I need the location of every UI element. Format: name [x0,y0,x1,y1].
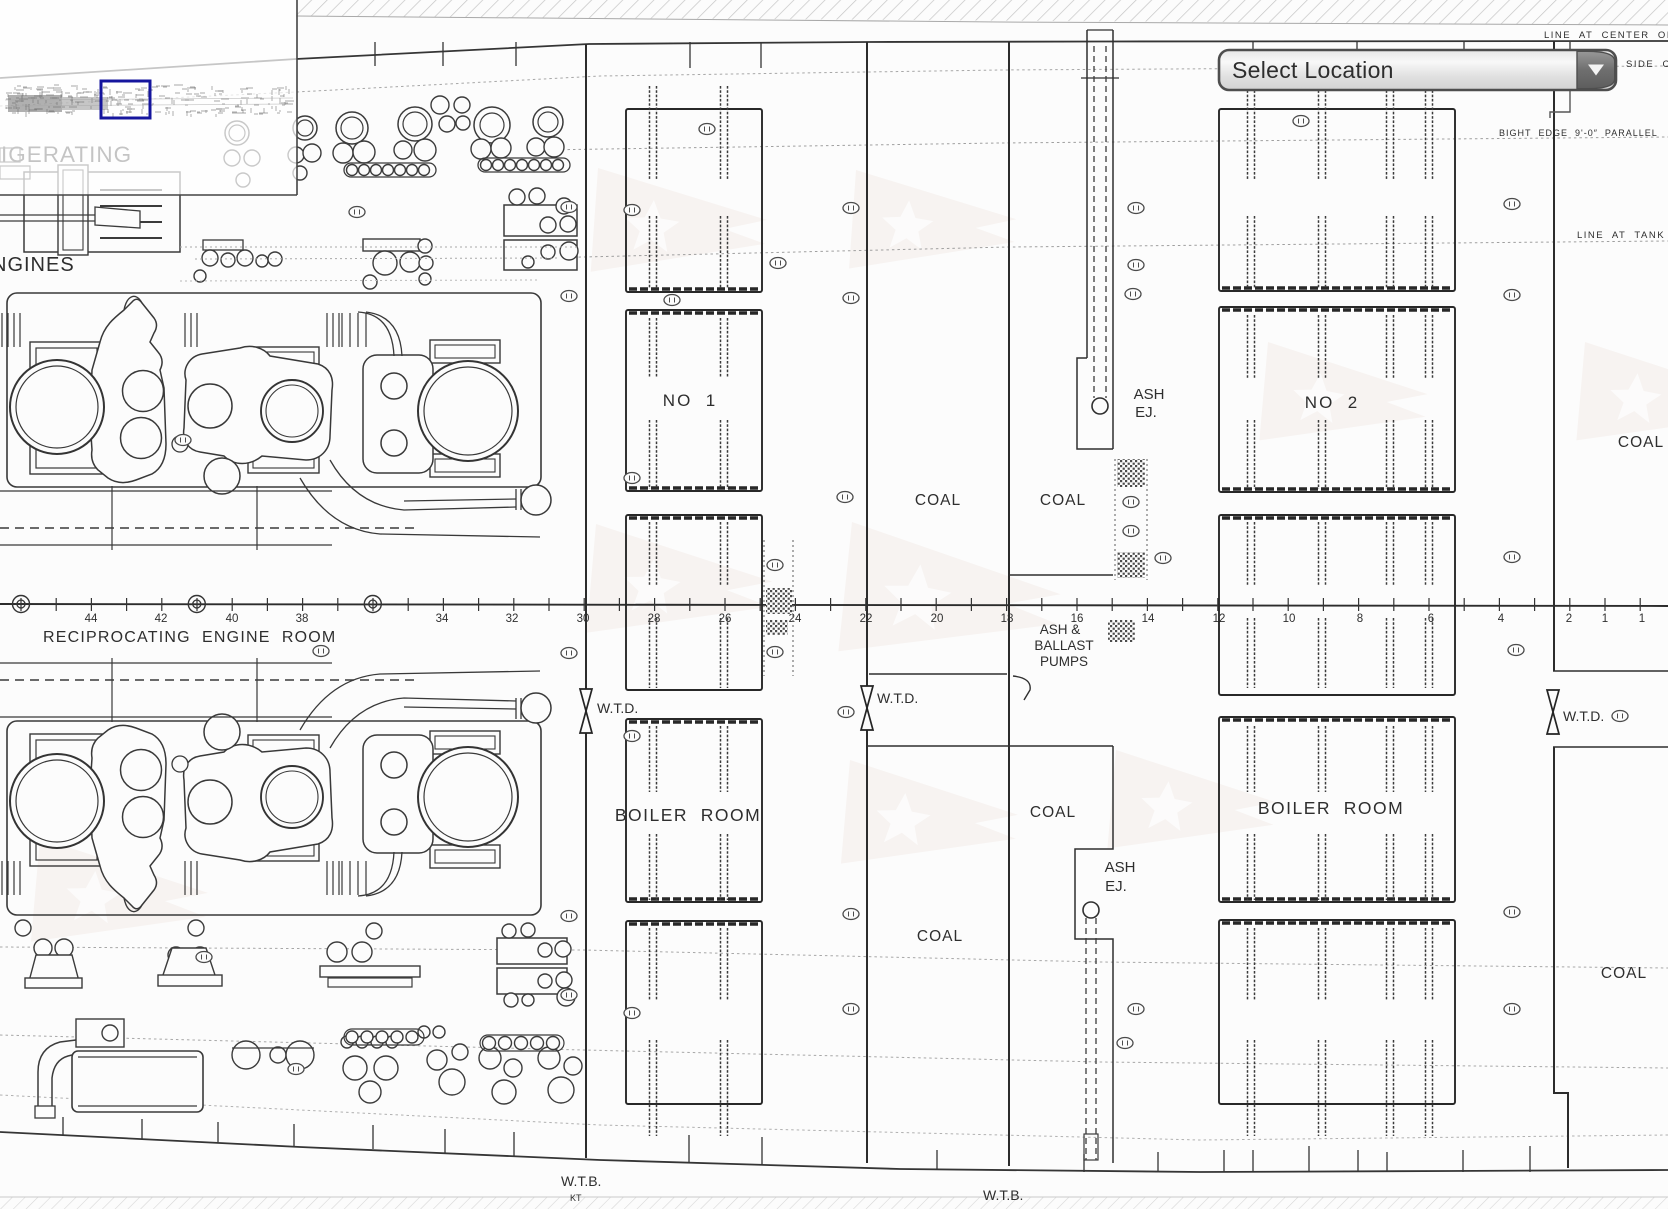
line at tank dotted [540,241,1668,258]
auxiliary machinery top row [225,121,249,145]
escape trunk port [763,540,765,676]
hull top edge [0,41,1668,78]
boiler bank B7 [1219,307,1455,492]
reciprocating engine (stbd) [0,658,551,915]
reciprocating engine (port) [0,293,551,550]
W.T.D. valve frame 22 [861,686,873,730]
lower bunker top line [867,745,1113,747]
watertight bulkhead frame 18 [1008,42,1010,1166]
rivet/penetration symbols [349,207,365,218]
boiler bank B5 [626,921,762,1136]
frame number ruler [0,604,1668,606]
frame ticks on hull top [374,42,376,66]
boiler bank B9 [1219,717,1455,902]
hatched margin above hull top edge [296,0,1668,25]
W.T.D. valve frame 2 [1547,690,1559,734]
leader to bight edge [1550,90,1570,118]
overview minimap panel [0,0,297,195]
lower bunker side with ash ej. recess [1075,746,1113,1163]
minimap plan strip [5,85,294,118]
boiler bank B1 [626,86,762,292]
watertight bulkhead frame 30 [585,44,587,1158]
boiler bank B4 [626,719,762,902]
lower margin dotted lines [0,947,1668,968]
ash ejector trunk (upper) [1086,30,1088,358]
ash and ballast pump room [869,673,1007,675]
ash ejector (lower) [1083,902,1099,918]
frame ticks on hull bottom [62,1117,64,1135]
bight edge dotted line [540,137,1668,150]
watertight bulkhead frame 22 [866,42,868,1163]
escape trunk stbd [1114,459,1116,580]
location dropdown [1219,50,1616,90]
hull bottom edge [0,1132,1668,1172]
frame station markers [13,596,30,613]
margin line (dotted sheer) [0,66,1668,106]
watertight bulkhead frame 2 (with W.T.D. recess) [1553,41,1555,671]
W.T.D. valve frame 30 [580,689,592,733]
boiler bank B6 [1219,86,1455,291]
svg-text:Select Location: Select Location [1232,57,1394,83]
viewport indicator [101,81,150,118]
boiler bank B8 [1219,515,1455,695]
upper bunker floor line [1009,574,1113,576]
watermark flags [591,168,770,284]
hatched margin below hull bottom [0,1197,1668,1209]
ash ejector (upper) [1092,398,1108,414]
boiler bank B10 [1219,920,1455,1136]
boiler bank B3 [626,515,762,690]
boiler bank B2 [626,310,762,491]
auxiliary machinery bottom rows [34,939,52,957]
